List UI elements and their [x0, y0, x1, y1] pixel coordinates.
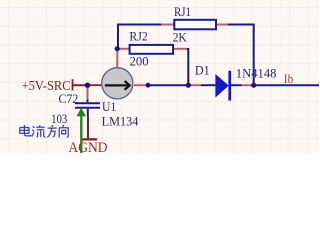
svg-text:RJ2: RJ2: [129, 29, 147, 43]
svg-text:U1: U1: [102, 100, 116, 114]
svg-text:AGND: AGND: [68, 140, 107, 153]
svg-text:+5V-SRC: +5V-SRC: [22, 79, 71, 94]
svg-text:RJ1: RJ1: [174, 5, 191, 19]
svg-text:2K: 2K: [173, 31, 187, 45]
svg-text:D1: D1: [195, 64, 210, 78]
svg-text:LM134: LM134: [102, 114, 140, 128]
svg-text:103: 103: [51, 112, 67, 126]
svg-text:C72: C72: [59, 92, 79, 106]
svg-text:200: 200: [130, 54, 149, 68]
svg-text:1N4148: 1N4148: [236, 67, 277, 81]
svg-text:Ib: Ib: [284, 71, 294, 86]
